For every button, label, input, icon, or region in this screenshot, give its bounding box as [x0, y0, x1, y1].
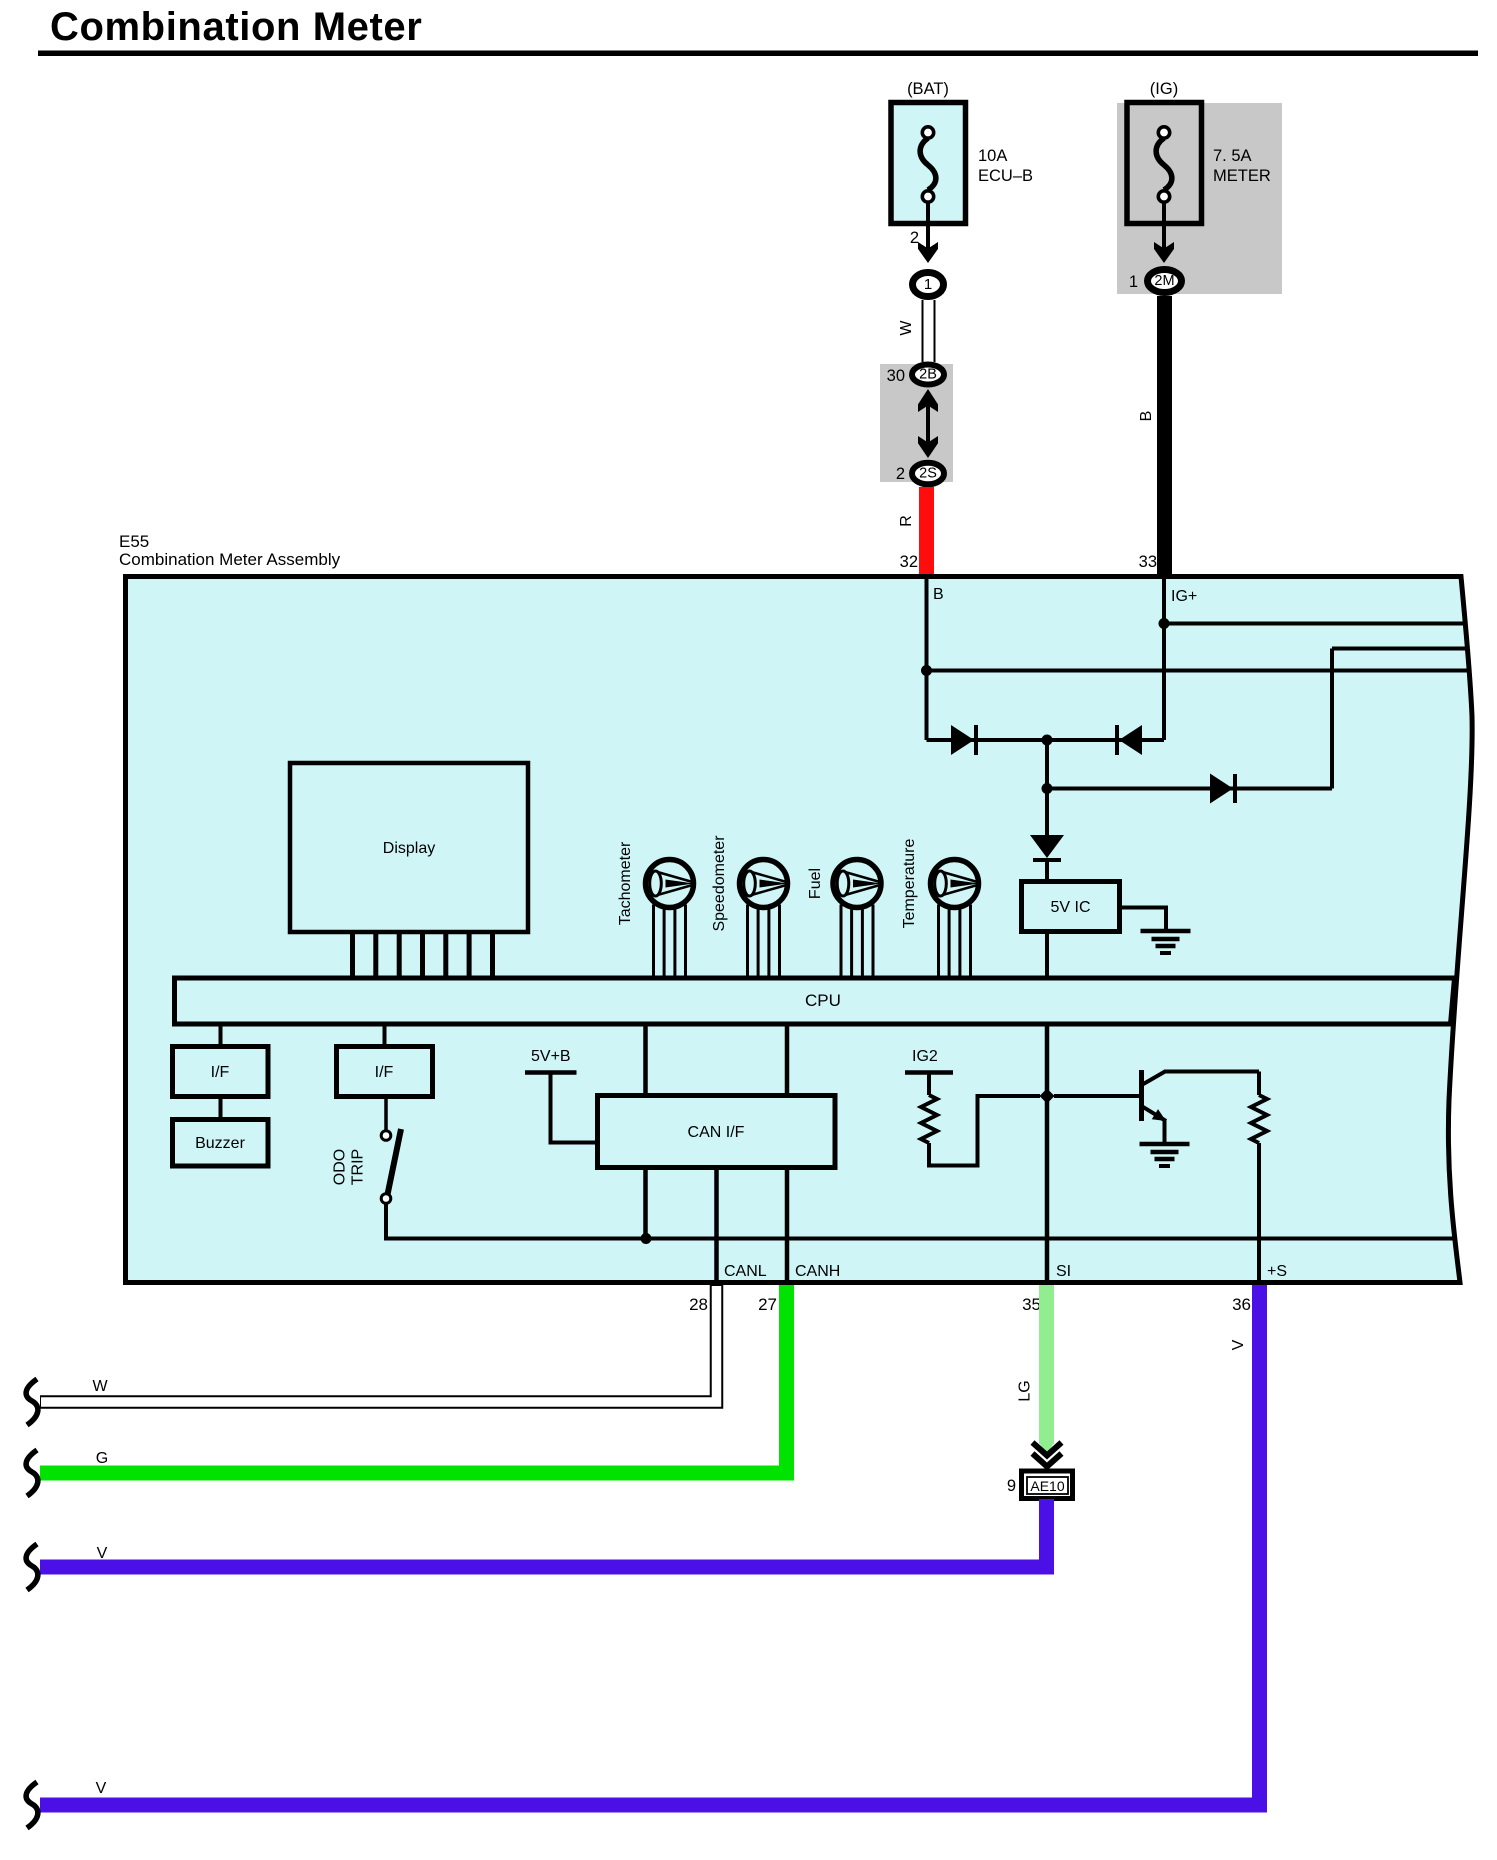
svg-text:CPU: CPU	[805, 991, 841, 1010]
svg-text:METER: METER	[1213, 167, 1271, 185]
svg-text:5V+B: 5V+B	[531, 1048, 571, 1065]
svg-text:2: 2	[910, 229, 919, 247]
svg-text:1: 1	[1129, 273, 1138, 291]
svg-text:1: 1	[924, 276, 932, 293]
svg-text:E55: E55	[119, 532, 149, 551]
svg-text:(BAT): (BAT)	[907, 80, 949, 98]
svg-text:CAN I/F: CAN I/F	[688, 1124, 745, 1141]
svg-text:AE10: AE10	[1030, 1478, 1064, 1494]
svg-text:9: 9	[1007, 1477, 1016, 1495]
svg-text:2S: 2S	[919, 466, 937, 482]
svg-text:27: 27	[758, 1295, 777, 1314]
svg-text:(IG): (IG)	[1150, 80, 1178, 98]
svg-text:V: V	[1230, 1339, 1247, 1350]
svg-text:36: 36	[1232, 1295, 1251, 1314]
svg-text:ODO: ODO	[332, 1149, 349, 1185]
svg-text:2: 2	[896, 465, 905, 483]
svg-text:Speedometer: Speedometer	[711, 835, 728, 932]
svg-text:IG2: IG2	[912, 1048, 938, 1065]
svg-text:Temperature: Temperature	[901, 838, 918, 928]
svg-text:R: R	[898, 515, 915, 527]
svg-text:28: 28	[689, 1295, 708, 1314]
svg-text:Combination Meter Assembly: Combination Meter Assembly	[119, 550, 341, 569]
svg-text:CANH: CANH	[795, 1263, 840, 1280]
svg-text:TRIP: TRIP	[350, 1149, 367, 1185]
svg-text:30: 30	[887, 367, 905, 385]
svg-text:V: V	[97, 1545, 108, 1562]
svg-text:Buzzer: Buzzer	[195, 1135, 245, 1152]
svg-text:10A: 10A	[978, 147, 1007, 165]
svg-text:B: B	[933, 586, 944, 603]
svg-text:W: W	[898, 320, 915, 336]
svg-text:I/F: I/F	[211, 1064, 230, 1081]
svg-text:W: W	[92, 1378, 108, 1395]
svg-text:V: V	[96, 1780, 107, 1797]
svg-text:Tachometer: Tachometer	[617, 841, 634, 925]
svg-text:Fuel: Fuel	[807, 868, 824, 899]
svg-text:SI: SI	[1056, 1263, 1071, 1280]
svg-text:CANL: CANL	[724, 1263, 767, 1280]
svg-text:Display: Display	[383, 840, 435, 857]
svg-text:G: G	[96, 1450, 108, 1467]
svg-text:35: 35	[1022, 1295, 1041, 1314]
svg-text:5V IC: 5V IC	[1050, 899, 1090, 916]
svg-text:I/F: I/F	[375, 1064, 394, 1081]
svg-text:ECU–B: ECU–B	[978, 167, 1033, 185]
svg-text:IG+: IG+	[1171, 588, 1197, 605]
svg-text:+S: +S	[1267, 1263, 1287, 1280]
svg-text:32: 32	[900, 553, 918, 571]
svg-text:2M: 2M	[1154, 273, 1174, 289]
svg-text:33: 33	[1139, 553, 1157, 571]
svg-text:2B: 2B	[919, 367, 937, 383]
svg-text:7. 5A: 7. 5A	[1213, 147, 1252, 165]
svg-text:B: B	[1138, 411, 1155, 422]
svg-text:LG: LG	[1017, 1380, 1034, 1401]
svg-text:Combination Meter: Combination Meter	[50, 5, 422, 49]
